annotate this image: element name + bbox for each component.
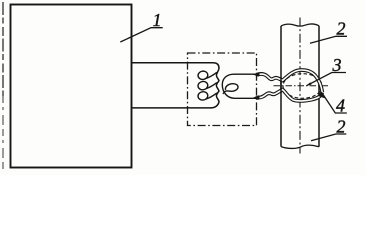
primary coil turn 3 crossing stroke — [206, 93, 217, 99]
generator box 1 — [11, 5, 132, 168]
terminal top — [253, 72, 259, 77]
inductor loop top white core — [260, 70, 323, 92]
primary coil turn 2 crossing stroke — [206, 83, 217, 89]
svg-text:2: 2 — [337, 116, 346, 136]
pipe wall left — [280, 26, 282, 147]
label 1 leader — [120, 28, 162, 42]
secondary coil inner loop — [223, 84, 238, 94]
inductor loop 4: bottom lead + bottom arc (black) — [258, 90, 322, 101]
pipe bottom break line — [281, 145, 319, 148]
pipe top break line — [281, 24, 319, 26]
label 2 bottom leader — [311, 134, 346, 141]
inductor loop bottom white core — [260, 90, 323, 101]
svg-text:4: 4 — [336, 95, 345, 115]
secondary coil L2 — [222, 74, 256, 98]
label 3 arrow — [306, 82, 312, 86]
primary coil L1 spine — [211, 63, 220, 108]
inductor loop 4: top lead + top arc (black) — [258, 70, 322, 92]
matching unit box (dash-dot) — [188, 53, 257, 126]
label 4 leader — [322, 93, 347, 113]
terminal bottom — [253, 95, 259, 100]
svg-text:1: 1 — [153, 10, 162, 30]
primary coil turn 3 loop — [197, 91, 208, 101]
weld axis dash-dot — [274, 85, 329, 87]
pipe wall right — [318, 26, 320, 147]
primary coil turn 1 loop — [197, 70, 208, 80]
scan edge artifact line (upper) — [2, 2, 4, 96]
primary coil turn 2 loop — [197, 81, 208, 91]
inductor loop right vertex wedge — [317, 92, 325, 99]
primary coil turn 1 crossing stroke — [206, 72, 217, 78]
pipe wall left (segment through inductor mouth) — [280, 78, 282, 93]
wire bottom (L1 to generator) — [132, 107, 211, 109]
scan edge artifact line (lower, faint) — [2, 96, 4, 170]
svg-text:2: 2 — [337, 19, 346, 39]
svg-text:3: 3 — [332, 55, 342, 75]
label 2 top leader — [310, 36, 347, 43]
wire top (generator to L1) — [132, 62, 213, 64]
label 3 leader — [307, 73, 346, 86]
pipe centerline — [299, 18, 301, 154]
weld zone dashed ellipse 3 — [283, 74, 322, 99]
